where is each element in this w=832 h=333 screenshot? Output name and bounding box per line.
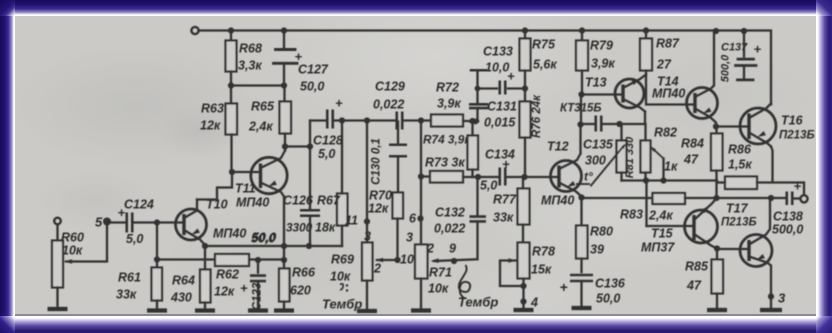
resistor R82 trimmer <box>644 124 646 141</box>
wire R64 to ground <box>204 302 206 309</box>
svg-text:500,0: 500,0 <box>772 222 803 236</box>
svg-text:R72: R72 <box>436 80 459 94</box>
svg-text:6: 6 <box>409 211 417 225</box>
svg-text:МП40: МП40 <box>541 193 574 207</box>
node T14 collector rail <box>713 27 719 33</box>
svg-text:3300: 3300 <box>286 220 313 234</box>
wire x310 down to C126 <box>309 146 311 209</box>
ground under R61 <box>147 308 167 312</box>
transistor T17 <box>740 234 772 266</box>
svg-text:500,0: 500,0 <box>720 53 732 81</box>
svg-text:47: 47 <box>686 278 702 292</box>
transistor T10 <box>176 209 207 240</box>
svg-text:+: + <box>507 68 515 83</box>
svg-text:+: + <box>118 205 126 220</box>
svg-text:R65: R65 <box>251 99 275 113</box>
resistor R80 <box>580 197 582 225</box>
svg-text:МП37: МП37 <box>641 240 675 254</box>
wire R66 to ground <box>283 301 285 309</box>
svg-text:12к: 12к <box>368 201 389 215</box>
svg-text:R74 3,9к: R74 3,9к <box>423 132 471 146</box>
input terminal node 5 <box>103 217 111 225</box>
capacitor C126 <box>300 210 320 216</box>
node at T10 base / R61 top <box>154 219 160 225</box>
resistor R67 <box>337 193 348 225</box>
node T12 emitter <box>578 194 584 200</box>
transistor T12 <box>551 160 582 191</box>
svg-text:5,0: 5,0 <box>318 147 335 161</box>
node 10 <box>394 256 400 262</box>
svg-text:С129: С129 <box>375 79 405 93</box>
capacitor C131 stack <box>476 108 478 122</box>
svg-text:+: + <box>240 280 248 295</box>
node R81 top <box>616 120 622 126</box>
ground under R71 <box>411 308 431 312</box>
node T11 base <box>229 168 235 174</box>
wire T10 emitter rail <box>205 244 284 246</box>
node R67 top <box>339 117 345 123</box>
wire R86 to output corner <box>757 182 804 195</box>
resistor R87 <box>643 27 649 33</box>
wire R71 bottom <box>420 278 422 308</box>
wire x367 down <box>366 120 368 242</box>
ground under C123 <box>248 308 268 312</box>
capacitor C136 <box>580 258 582 272</box>
svg-text:С131: С131 <box>487 99 517 113</box>
wire R65 down <box>284 133 286 146</box>
svg-text:R76 24к: R76 24к <box>531 93 543 137</box>
resistor R79 <box>579 27 585 33</box>
svg-text:КТ315Б: КТ315Б <box>560 102 602 114</box>
capacitor C137 <box>741 27 747 33</box>
bias rail y180 <box>622 179 718 181</box>
potentiometer R60 <box>56 224 58 240</box>
svg-text:3,9к: 3,9к <box>437 96 461 110</box>
svg-text:2,4к: 2,4к <box>648 208 673 222</box>
wire T11 base <box>232 170 260 172</box>
wire T10base node down to R61 <box>156 222 158 267</box>
wire R70 bottom <box>396 218 398 260</box>
svg-text:3: 3 <box>778 290 786 305</box>
node T15 emitter <box>714 245 720 251</box>
wire to T13 base <box>582 93 623 95</box>
svg-text:3: 3 <box>406 230 413 244</box>
wire T13 emitter down <box>644 111 646 124</box>
svg-text:2: 2 <box>426 241 434 255</box>
svg-text:39: 39 <box>590 242 604 256</box>
svg-text:0,015: 0,015 <box>484 115 516 129</box>
svg-text:С130 0,1: С130 0,1 <box>371 138 383 185</box>
node 11 <box>364 218 370 224</box>
transistor T14 <box>687 87 718 118</box>
wire C135 node to R82 <box>620 122 646 124</box>
node T14 emitter <box>713 123 719 129</box>
capacitor C135 <box>581 122 596 124</box>
svg-text:Т17: Т17 <box>726 201 749 215</box>
resistor R66 <box>283 260 285 269</box>
svg-text:Тембр: Тембр <box>458 294 498 309</box>
svg-text:33к: 33к <box>116 287 137 301</box>
svg-text:R81 330: R81 330 <box>624 135 636 177</box>
wire node5 to C124 <box>107 221 127 223</box>
svg-text:С134: С134 <box>485 147 515 161</box>
svg-text:50,0: 50,0 <box>596 291 620 305</box>
node R78 bottom <box>520 282 526 288</box>
wire T12 collector up <box>579 124 581 153</box>
svg-text:R66: R66 <box>292 265 316 279</box>
wire R61 to ground <box>156 300 158 309</box>
svg-text:10к: 10к <box>62 243 83 257</box>
svg-text:Тембр: Тембр <box>322 296 362 311</box>
svg-text:27: 27 <box>656 57 672 71</box>
svg-text:R84: R84 <box>681 136 704 150</box>
svg-text:5,0: 5,0 <box>126 232 143 246</box>
connector squiggle Тембр <box>459 265 470 299</box>
resistor R61 <box>152 267 163 300</box>
output terminal <box>800 195 807 202</box>
node T11 emitter rail <box>281 242 287 248</box>
svg-text:+: + <box>794 178 802 193</box>
transistor T11 <box>251 157 287 193</box>
wire collector node up <box>580 94 582 124</box>
svg-text:47: 47 <box>683 152 699 166</box>
svg-text:R83: R83 <box>620 207 643 221</box>
wire T14 emitter to T16 base <box>716 125 749 127</box>
wire T11 emitter down <box>283 196 285 260</box>
node junction A <box>475 173 481 179</box>
svg-text:18к: 18к <box>315 220 336 234</box>
svg-text:3,3к: 3,3к <box>238 58 262 72</box>
terminal at R60 top <box>54 217 61 224</box>
node C126 bottom <box>306 242 312 248</box>
svg-text:R73 3к: R73 3к <box>425 155 465 169</box>
capacitor C128 <box>310 119 326 121</box>
svg-text:10к: 10к <box>330 269 351 283</box>
wire C128 node to C129 <box>342 119 395 121</box>
svg-text:2,4к: 2,4к <box>248 119 273 133</box>
svg-text:R82: R82 <box>654 125 677 139</box>
svg-text:0,022: 0,022 <box>434 221 465 235</box>
node T12 collector <box>577 121 583 127</box>
node R82 wiper <box>660 177 666 183</box>
svg-text:5,6к: 5,6к <box>533 57 557 71</box>
wire wiper to R69 <box>377 258 398 260</box>
node C131 bottom <box>473 118 479 124</box>
node 3 output <box>768 293 774 299</box>
node 9 <box>451 257 457 263</box>
svg-text:9: 9 <box>449 241 456 255</box>
node T10 emitter junction <box>202 242 208 248</box>
node T13 base feed <box>578 91 584 97</box>
svg-text:С124: С124 <box>124 197 154 211</box>
wire emitter bus to R67 <box>284 244 342 246</box>
transistor T16 <box>740 108 776 144</box>
node C123 tap <box>255 256 261 262</box>
wire R63 to T11 base node <box>230 134 232 171</box>
ground under R85 <box>707 307 727 311</box>
ground under R66 <box>274 308 294 312</box>
wire C129 to R72 node <box>405 119 422 121</box>
svg-text:R67: R67 <box>317 193 341 207</box>
svg-text:R79: R79 <box>590 38 613 52</box>
svg-text:Т11: Т11 <box>235 181 256 195</box>
svg-text:R80: R80 <box>590 224 613 238</box>
node output left <box>713 194 719 200</box>
svg-text:R70: R70 <box>369 188 392 202</box>
svg-text:С133: С133 <box>483 44 513 58</box>
svg-text:С136: С136 <box>595 276 626 290</box>
top supply rail <box>199 30 771 104</box>
svg-text:R63: R63 <box>201 101 224 115</box>
wire C124 to T10 base <box>133 221 184 223</box>
wire R73 tap <box>421 175 430 177</box>
ground under R64 <box>195 308 215 312</box>
svg-text:Т12: Т12 <box>547 139 569 153</box>
wire R67 top <box>341 120 343 193</box>
wire R73 right <box>463 175 498 177</box>
resistor R65 <box>283 85 285 101</box>
svg-text:2: 2 <box>373 261 381 275</box>
svg-text:С126: С126 <box>283 193 314 207</box>
svg-text:5: 5 <box>95 214 103 229</box>
resistor R63 <box>230 85 232 103</box>
ground under R60 <box>48 306 68 310</box>
wire C134 right <box>507 175 559 177</box>
connector squiggle left <box>340 283 343 289</box>
wire x310 up <box>309 120 311 146</box>
node C127 top <box>281 27 287 33</box>
svg-text:10,0: 10,0 <box>485 60 509 74</box>
svg-text:МП40: МП40 <box>652 86 685 100</box>
svg-text:МП40: МП40 <box>213 226 246 240</box>
ground under R69 <box>357 308 377 312</box>
svg-text:R68: R68 <box>239 41 262 55</box>
wire emitter node down to R64 <box>204 246 206 270</box>
node C126 top line <box>307 143 313 149</box>
node T17 collector <box>768 194 774 200</box>
svg-text:+: + <box>560 279 568 295</box>
wire x421 line <box>420 120 422 244</box>
svg-text:15к: 15к <box>531 262 552 276</box>
svg-text:П213Б: П213Б <box>721 216 757 228</box>
ground under node 3 <box>760 307 782 311</box>
svg-text:R78: R78 <box>532 244 555 258</box>
node C127 bottom <box>281 82 287 88</box>
wire T10 collector staircase to T11 base node <box>197 172 232 199</box>
bottom rail y259 <box>157 258 215 260</box>
node R75 bottom <box>522 85 528 91</box>
svg-text:3,9к: 3,9к <box>591 56 615 70</box>
svg-text:R86: R86 <box>728 142 752 156</box>
svg-text:Т13: Т13 <box>585 75 607 89</box>
svg-text:300: 300 <box>585 153 606 167</box>
wire divider <box>231 84 284 86</box>
node R74 top <box>469 117 475 123</box>
svg-text:С132: С132 <box>435 205 465 219</box>
wire T11 collector up <box>284 146 286 150</box>
svg-text:+: + <box>754 41 762 56</box>
resistor R62 <box>215 254 249 266</box>
resistor R76 <box>524 88 526 101</box>
svg-text:1,5к: 1,5к <box>728 157 752 171</box>
resistor R75 <box>522 27 528 33</box>
svg-text:R85: R85 <box>685 259 709 273</box>
svg-text:С123: С123 <box>252 282 264 310</box>
node 4 <box>520 298 526 304</box>
svg-text:10к: 10к <box>428 281 449 295</box>
resistor R85 <box>716 248 718 259</box>
node R68 bottom <box>230 71 232 85</box>
svg-text:R71: R71 <box>429 265 452 279</box>
resistor R70 <box>393 192 404 218</box>
svg-text:П213Б: П213Б <box>779 129 815 141</box>
svg-text:R77: R77 <box>493 192 517 206</box>
node 6 <box>417 215 423 221</box>
capacitor C130 <box>397 121 399 142</box>
transistor T13 <box>615 79 644 108</box>
svg-text:50,0: 50,0 <box>300 79 324 93</box>
svg-text:0,022: 0,022 <box>373 97 404 111</box>
wire T12 emitter to R83 <box>582 196 653 198</box>
svg-text:R61: R61 <box>118 270 141 284</box>
node R81 bottom <box>643 177 649 183</box>
output wire <box>717 196 786 198</box>
ground under node 4 <box>522 301 524 308</box>
wire to C126 node <box>285 145 310 147</box>
node R68 top <box>228 27 234 33</box>
wire to node 4 <box>522 278 524 301</box>
node R72 left <box>418 117 424 123</box>
svg-text:11: 11 <box>345 213 358 227</box>
resistor R81 thermistor <box>620 124 622 141</box>
svg-text:С128: С128 <box>313 133 343 147</box>
ground under C136 <box>572 305 592 309</box>
capacitor C127 <box>283 30 285 48</box>
wire y120 tail <box>470 120 478 122</box>
svg-text:R62: R62 <box>216 267 239 281</box>
resistor R84 <box>715 126 717 133</box>
svg-text:R69: R69 <box>331 252 354 266</box>
wire T15 emitter to T17 base <box>717 247 749 249</box>
wire to T15 base <box>647 224 694 226</box>
potentiometer R78 <box>518 242 530 278</box>
svg-text:С135: С135 <box>583 137 614 151</box>
wire T16 emitter down <box>771 146 773 182</box>
svg-text:5,0: 5,0 <box>480 178 497 192</box>
wire node3 to ground <box>770 296 772 308</box>
svg-text:С127: С127 <box>298 62 329 76</box>
svg-text:12к: 12к <box>200 118 221 132</box>
svg-text:R75: R75 <box>532 37 556 51</box>
svg-text:t°: t° <box>584 169 593 183</box>
svg-text:50,0: 50,0 <box>252 230 276 244</box>
svg-text:620: 620 <box>290 283 311 297</box>
svg-text:+: + <box>335 95 343 110</box>
wire node5 to R60 wiper <box>66 221 107 261</box>
svg-text:R87: R87 <box>656 36 680 50</box>
resistor R68 <box>230 30 232 40</box>
svg-text:12к: 12к <box>214 284 235 298</box>
wire R60 bottom <box>56 287 58 307</box>
svg-text:1к: 1к <box>664 159 678 173</box>
transistor T15 <box>685 210 718 243</box>
svg-text:R60: R60 <box>61 230 84 244</box>
svg-text:С138: С138 <box>773 209 803 223</box>
node T12 base <box>521 173 527 179</box>
node T11 collector <box>282 143 288 149</box>
svg-text:Т15: Т15 <box>651 226 674 240</box>
svg-text:МП40: МП40 <box>236 195 269 209</box>
wire R72 right <box>463 119 478 121</box>
svg-text:Т16: Т16 <box>781 113 804 127</box>
wire T15 base drop <box>645 180 647 226</box>
resistor R64 <box>200 269 211 302</box>
svg-text:430: 430 <box>170 290 192 304</box>
node R61-rail <box>154 256 160 262</box>
node x367 top <box>364 117 370 123</box>
svg-text:R64: R64 <box>172 273 195 287</box>
svg-text:4: 4 <box>530 295 538 309</box>
svg-text:3: 3 <box>364 229 371 243</box>
wire R69 bottom <box>366 280 368 309</box>
svg-text:10: 10 <box>400 252 414 266</box>
svg-text:С137: С137 <box>721 41 748 53</box>
wire R87 to T14 base <box>646 70 695 104</box>
supply terminal <box>191 26 198 33</box>
node R66 top <box>281 256 287 262</box>
svg-text:33к: 33к <box>493 210 514 224</box>
